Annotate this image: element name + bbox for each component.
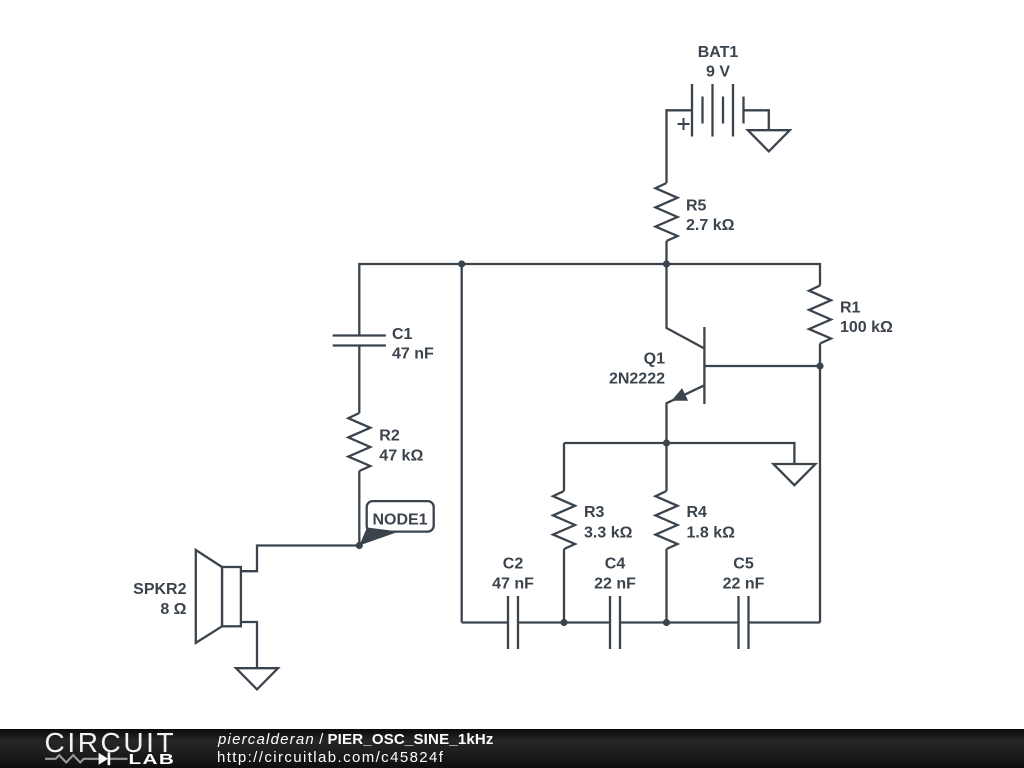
svg-text:BAT1: BAT1: [698, 44, 739, 61]
svg-text:3.3 kΩ: 3.3 kΩ: [584, 525, 633, 542]
svg-text:R5: R5: [686, 198, 707, 215]
svg-text:C2: C2: [503, 556, 524, 573]
svg-text:22 nF: 22 nF: [594, 575, 636, 592]
svg-text:9 V: 9 V: [706, 64, 730, 81]
node junction dot R3 bottom: [560, 619, 567, 626]
battery BAT1: [678, 44, 744, 137]
svg-text:Q1: Q1: [644, 351, 665, 368]
svg-text:47 nF: 47 nF: [392, 345, 434, 362]
resistor R1: [809, 286, 893, 344]
wire battery negative to ground: [744, 110, 769, 130]
svg-text:2.7 kΩ: 2.7 kΩ: [686, 217, 735, 234]
node junction dot bus left: [458, 260, 465, 267]
capacitor C1: [333, 326, 434, 362]
svg-text:100 kΩ: 100 kΩ: [840, 319, 893, 336]
svg-text:NODE1: NODE1: [372, 512, 427, 529]
node junction dot emitter: [663, 439, 670, 446]
wire R2 to NODE1 junction: [358, 471, 360, 546]
capacitor C2: [492, 556, 534, 650]
logo resistor-diode glyph: [45, 755, 128, 762]
svg-text:LAB: LAB: [129, 751, 176, 768]
svg-text:2N2222: 2N2222: [609, 371, 665, 388]
svg-text:47 kΩ: 47 kΩ: [379, 448, 423, 465]
speaker SPKR2: [133, 550, 241, 643]
svg-text:C4: C4: [605, 556, 626, 573]
node junction dot bus R5: [663, 260, 670, 267]
ground battery: [748, 130, 790, 151]
svg-text:R2: R2: [379, 428, 400, 445]
wire R1 to bottom rail: [819, 344, 821, 623]
svg-text:C5: C5: [733, 556, 754, 573]
node junction dot R4 bottom: [663, 619, 670, 626]
capacitor C4: [594, 556, 636, 650]
wire V+ bus: [359, 264, 820, 336]
svg-text:R1: R1: [840, 300, 861, 317]
svg-text:22 nF: 22 nF: [723, 575, 765, 592]
logo diode symbol: [99, 753, 109, 765]
wire NODE1 to speaker: [241, 546, 359, 572]
svg-text:R4: R4: [687, 504, 708, 521]
node junction dot NODE1: [356, 542, 363, 549]
resistor R2: [348, 413, 423, 471]
wire bottom rail: [462, 621, 820, 623]
resistor R3: [553, 443, 633, 623]
transistor Q1: [609, 264, 704, 443]
wire R5 to bus: [665, 241, 667, 264]
svg-text:47 nF: 47 nF: [492, 575, 534, 592]
ground speaker: [236, 668, 278, 689]
capacitor C5: [723, 556, 765, 650]
wire speaker to ground: [241, 622, 257, 668]
node junction dot base: [816, 362, 823, 369]
svg-text:1.8 kΩ: 1.8 kΩ: [687, 525, 736, 542]
svg-text:R3: R3: [584, 504, 605, 521]
attribution text: [218, 731, 494, 748]
wire battery positive to R5: [667, 110, 693, 183]
wire bus to bottom rail left drop: [461, 264, 463, 623]
resistor R4: [656, 443, 736, 623]
svg-text:8 Ω: 8 Ω: [160, 601, 186, 618]
wire emitter rail: [564, 443, 794, 464]
node NODE1 flag: [359, 501, 433, 545]
footer bar: [0, 729, 1024, 768]
wire C1 to R2: [358, 346, 360, 414]
circuitlab logo: [0, 729, 200, 768]
resistor R5: [656, 183, 735, 241]
svg-text:SPKR2: SPKR2: [133, 581, 186, 598]
ground emitter rail: [773, 464, 815, 485]
svg-text:C1: C1: [392, 326, 413, 343]
wire base: [704, 365, 820, 367]
